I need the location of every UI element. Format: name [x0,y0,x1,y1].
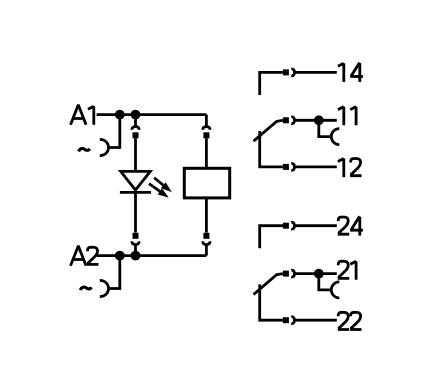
wire coil branch from A1 rail [205,115,208,128]
junction on A1 rail (socket drop) [115,110,125,120]
terminal label A1 [71,106,94,125]
wire coil connector to coil [205,138,208,168]
plug-socket connector on 22 line [283,317,295,324]
wire LED branch to LED [134,138,137,171]
plug-socket connector on 24 line [283,222,295,229]
socket half-circle at A1 (plug-in supply) [100,140,109,156]
plug-in connector top of LED branch [132,127,139,139]
socket half-circle at A2 (plug-in supply) [100,281,109,297]
LED D1 cathode bar [120,191,151,194]
plug-socket connector on 12 line [283,163,295,170]
wire A2 socket drop [109,256,120,289]
terminal label 11 [338,107,356,126]
plug-in connector top of coil branch [203,127,210,139]
movable contact armature (11) [254,120,283,141]
terminal label 14 [338,63,363,82]
wire A2 rail [97,254,207,257]
wire NO terminal 24 stub [260,226,283,249]
movable contact armature (21) [254,274,283,295]
wire coil to lower connector [205,198,208,233]
wire LED to lower connector [134,192,137,232]
relay coil K1 [184,168,229,198]
junction on A2 rail (socket drop) [115,251,125,261]
AC symbol (~) at A1 [79,149,90,152]
plug-in connector bottom of LED branch [132,233,139,245]
junction dot on 21 [314,269,324,279]
wire to terminal 24 [295,224,337,227]
junction on A1 rail (LED branch) [131,110,141,120]
wire LED branch lower stub [134,244,137,256]
wire LED branch upper stub [134,115,137,128]
LED D1 triangle (anode) [121,171,151,190]
wire pivot to NC terminal 12 [260,131,283,167]
wire to terminal 12 [295,165,337,168]
plug-in connector bottom of coil branch [203,233,210,245]
wire to junction 11 [295,119,337,122]
LED light arrow 2 [149,184,169,198]
plug-socket connector on 21 line [283,270,295,277]
wire NO terminal 14 stub [260,72,283,95]
plug-socket connector on 11 line [283,117,295,124]
socket half-circle at 11 [331,129,339,145]
plug-socket connector on 14 line [283,69,295,76]
junction dot on 11 [314,115,324,125]
terminal label 21 [338,261,356,280]
wire 11 socket drop [319,120,330,136]
wire A1 rail [97,113,207,116]
wire A1 socket drop [109,115,120,148]
terminal label 24 [338,216,363,235]
wire 21 socket drop [319,274,330,290]
wire to terminal 14 [295,71,337,74]
AC symbol (~) at A2 [80,287,91,290]
socket half-circle at 21 [331,282,339,298]
wire coil branch to A2 rail [205,244,208,256]
LED light arrow 1 [154,178,172,192]
wire to terminal 22 [295,319,337,322]
junction on A2 rail (LED branch) [131,251,141,261]
wire to junction 21 [295,272,337,275]
terminal label 12 [338,159,362,178]
terminal label 22 [338,312,362,329]
terminal label A2 [71,247,99,266]
wire pivot to NC terminal 22 [260,284,283,320]
